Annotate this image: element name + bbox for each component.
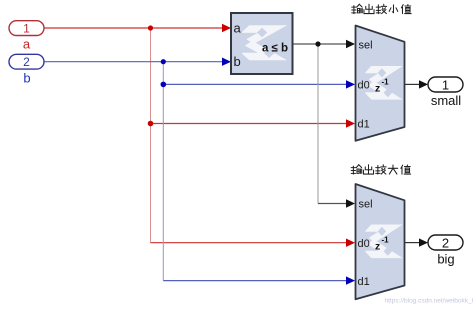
svg-text:-1: -1	[382, 78, 390, 87]
svg-text:https://blog.csdn.net/weibokk_: https://blog.csdn.net/weibokk_l	[385, 298, 474, 305]
wire b vertical branch	[162, 62, 164, 281]
svg-text:2: 2	[442, 235, 449, 250]
wire a branch to mux1 d1	[151, 123, 349, 125]
junction dot red 1	[148, 25, 153, 30]
mux2 xilinx logo	[363, 223, 392, 260]
svg-text:b: b	[23, 70, 30, 85]
junction dot red 2	[148, 121, 154, 127]
wire comparator output to mux1 sel	[293, 43, 348, 45]
svg-text:d0: d0	[358, 80, 370, 92]
svg-text:2: 2	[23, 55, 30, 69]
zhi	[401, 5, 411, 14]
svg-text:d1: d1	[358, 119, 370, 131]
svg-text:b: b	[234, 54, 241, 69]
svg-text:a: a	[23, 36, 31, 51]
output port 1	[428, 77, 463, 92]
svg-text:sel: sel	[359, 199, 373, 211]
svg-text:a ≤ b: a ≤ b	[262, 43, 288, 55]
svg-text:a: a	[234, 21, 242, 36]
arrowhead into mux2 d0	[346, 239, 355, 247]
input port 1	[9, 21, 44, 36]
junction dot blue 1	[161, 59, 166, 64]
mux U2 (output smaller)	[356, 26, 405, 141]
arrowhead into mux2 sel	[346, 199, 355, 207]
output port 2	[428, 235, 463, 250]
arrowhead into mux1 sel	[346, 40, 355, 48]
chu	[364, 4, 374, 13]
svg-text:z: z	[375, 83, 380, 95]
arrowhead into mux1 d0	[346, 80, 355, 88]
arrowhead into mux2 d1	[346, 276, 355, 284]
wire a branch to mux2 d0	[151, 242, 349, 244]
annotation: output bigger value (Chinese, hand-drawn strokes)	[351, 165, 410, 174]
wire b branch to mux2 d1	[163, 280, 348, 282]
shu	[352, 4, 363, 13]
mux1 xilinx logo	[363, 64, 392, 101]
arrowhead into out1	[419, 80, 428, 88]
wire b branch to mux1 d0	[163, 83, 348, 85]
annotation: output smaller value (Chinese, hand-drawn strokes)	[352, 4, 411, 13]
arrowhead a into comparator	[222, 24, 231, 32]
wire a vertical branch	[150, 28, 152, 243]
junction dot blue 2	[161, 82, 167, 88]
jiao	[376, 4, 386, 13]
arrowhead into out2	[419, 238, 428, 246]
wire b horizontal (port2 to comparator b)	[44, 61, 224, 63]
svg-text:big: big	[437, 252, 454, 267]
svg-text:d0: d0	[358, 238, 370, 250]
wire mux1 output	[405, 83, 421, 85]
da	[388, 165, 397, 174]
mux U3 (output bigger)	[356, 184, 405, 299]
svg-text:sel: sel	[359, 39, 373, 51]
comparator xilinx logo	[239, 24, 274, 63]
arrowhead into mux1 d1	[346, 119, 355, 127]
comparator U1 block	[231, 13, 293, 74]
svg-text:1: 1	[442, 77, 449, 92]
svg-text:-1: -1	[382, 236, 390, 245]
svg-text:d1: d1	[358, 276, 370, 288]
wire mux2 output	[405, 242, 421, 244]
svg-text:small: small	[431, 93, 461, 108]
wire vertical sel branch	[317, 44, 319, 204]
junction dot black	[315, 41, 320, 46]
svg-text:z: z	[375, 241, 380, 253]
wire a horizontal (port1 to comparator a)	[44, 27, 224, 29]
wire sel branch to mux2	[318, 203, 348, 205]
svg-text:1: 1	[23, 21, 30, 35]
input port 2	[9, 54, 44, 69]
xiao	[389, 5, 398, 13]
arrowhead b into comparator	[222, 58, 231, 66]
